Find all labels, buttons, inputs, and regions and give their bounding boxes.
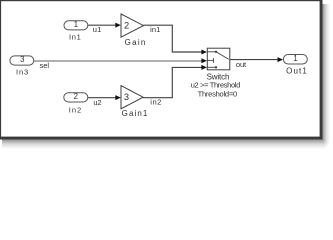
svg-text:3: 3: [124, 92, 129, 102]
svg-text:in2: in2: [150, 98, 161, 107]
svg-text:In1: In1: [69, 32, 81, 41]
svg-text:2: 2: [124, 21, 129, 31]
svg-text:out: out: [236, 60, 247, 69]
svg-text:3: 3: [20, 55, 24, 64]
svg-text:u2 >= Threshold: u2 >= Threshold: [191, 81, 241, 90]
svg-text:Gain: Gain: [125, 38, 146, 47]
svg-text:In2: In2: [69, 105, 81, 114]
svg-text:u2: u2: [93, 98, 101, 107]
svg-text:Switch: Switch: [207, 73, 230, 82]
svg-text:u1: u1: [93, 25, 102, 34]
svg-text:In3: In3: [16, 68, 28, 77]
svg-text:in1: in1: [150, 25, 160, 34]
svg-text:2: 2: [74, 92, 78, 101]
svg-text:1: 1: [74, 20, 78, 29]
svg-text:Gain1: Gain1: [122, 109, 148, 118]
svg-text:sel: sel: [40, 61, 50, 70]
svg-text:Threshold=0: Threshold=0: [198, 90, 238, 99]
svg-text:1: 1: [293, 54, 297, 63]
svg-text:Out1: Out1: [286, 67, 307, 76]
